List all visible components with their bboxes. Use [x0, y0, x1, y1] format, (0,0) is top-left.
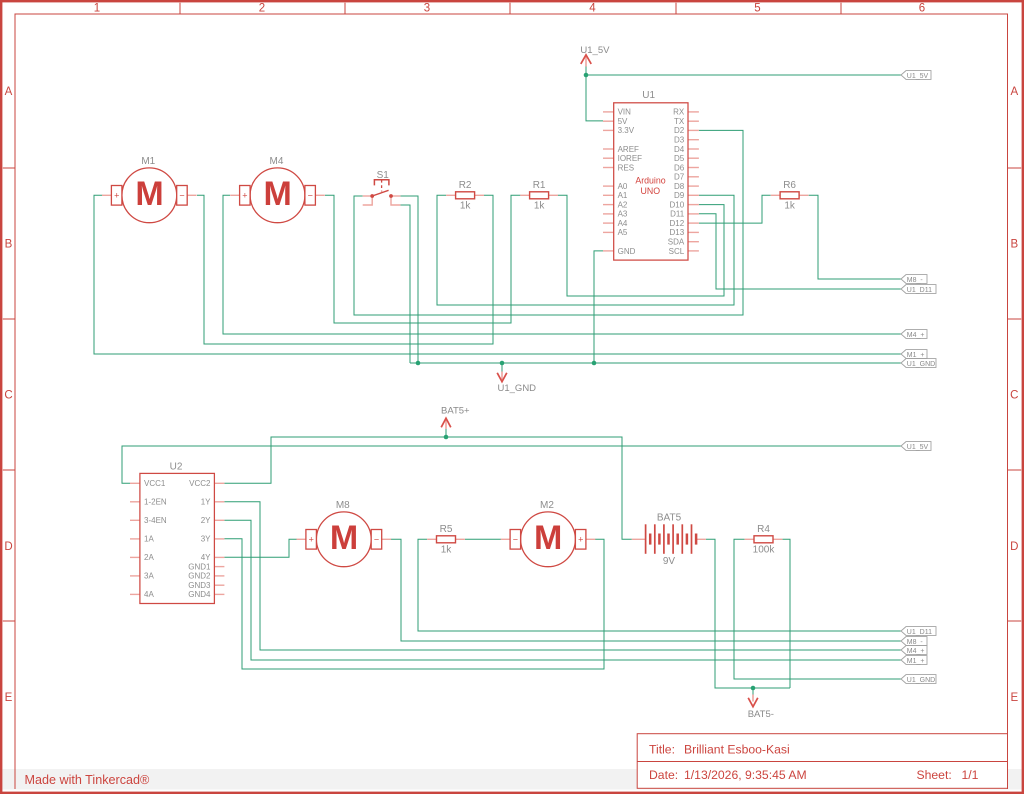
net flag U1_GND (top)	[901, 359, 936, 368]
net flag U1_5V (top)	[901, 71, 931, 80]
junction S1 right on U1_GND net	[416, 361, 421, 366]
wire net U1_5V lower from U2 VCC1 to flag	[122, 446, 901, 483]
svg-text:1/1: 1/1	[962, 768, 979, 782]
svg-text:4Y: 4Y	[201, 553, 211, 562]
wire R2 left to U1 pin D9	[437, 195, 734, 305]
wire net M8_- from R6 right to flag	[809, 195, 901, 279]
svg-text:M1_+: M1_+	[907, 352, 925, 359]
wire S1 left to U1 pin D2	[354, 130, 743, 315]
svg-text:GND2: GND2	[188, 572, 211, 581]
svg-text:Arduino: Arduino	[635, 176, 665, 186]
resistor R4	[745, 524, 783, 555]
svg-text:9V: 9V	[663, 556, 676, 567]
svg-text:U2: U2	[170, 461, 183, 472]
svg-text:VCC1: VCC1	[144, 479, 166, 488]
svg-text:D12: D12	[670, 219, 685, 228]
wire net U1_D11 lower from R5 left to flag	[418, 539, 901, 631]
svg-text:M: M	[264, 175, 292, 213]
svg-text:C: C	[4, 390, 12, 402]
svg-text:TX: TX	[674, 117, 685, 126]
junction U1 GND pin on U1_GND net	[592, 361, 597, 366]
svg-text:E: E	[1010, 692, 1018, 704]
driver IC U2	[130, 461, 224, 603]
wire net M4_+ (M4 plus terminal down and right to flag)	[223, 195, 901, 334]
motor M1	[102, 156, 197, 223]
svg-text:+: +	[114, 191, 119, 201]
svg-text:D10: D10	[670, 200, 685, 209]
svg-text:BAT5+: BAT5+	[441, 405, 470, 416]
svg-text:U1_GND: U1_GND	[907, 677, 935, 684]
svg-text:+: +	[242, 191, 247, 201]
svg-text:D7: D7	[674, 173, 685, 182]
svg-text:1-2EN: 1-2EN	[144, 498, 167, 507]
wire S1 upper right to U1_GND net	[400, 196, 418, 363]
svg-text:5: 5	[754, 3, 760, 15]
svg-text:100k: 100k	[753, 545, 776, 556]
wire net M4_+ lower from U2 1Y to flag	[224, 502, 901, 650]
svg-text:A4: A4	[618, 219, 628, 228]
net flag U1_GND (lower)	[901, 675, 936, 684]
svg-text:+: +	[309, 535, 314, 545]
svg-text:M4_+: M4_+	[907, 648, 925, 655]
net flag M1_+ (lower)	[901, 656, 927, 665]
net flag U1_5V (lower)	[901, 442, 931, 451]
svg-text:−: −	[308, 191, 313, 201]
wire R4 right down to BAT5- node	[783, 539, 791, 688]
svg-text:Made with Tinkercad®: Made with Tinkercad®	[25, 773, 150, 787]
svg-text:VCC2: VCC2	[189, 479, 211, 488]
junction U1_5V node	[584, 73, 589, 78]
svg-text:1/13/2026, 9:35:45 AM: 1/13/2026, 9:35:45 AM	[684, 768, 807, 782]
ground symbol U1_GND	[497, 372, 536, 394]
svg-text:M: M	[330, 519, 358, 557]
wire R5 right to M2 minus	[465, 538, 501, 540]
svg-text:1k: 1k	[460, 201, 472, 212]
wire U2 4Y to M8 plus	[224, 539, 296, 557]
svg-text:A: A	[5, 86, 13, 98]
svg-text:D9: D9	[674, 191, 685, 200]
wire net M1_+ lower from U2 2Y to flag	[224, 520, 901, 660]
wire net U1_5V to flag	[586, 74, 901, 76]
svg-text:1A: 1A	[144, 535, 154, 544]
svg-text:A0: A0	[618, 182, 628, 191]
svg-text:AREF: AREF	[618, 145, 639, 154]
svg-text:1k: 1k	[784, 201, 796, 212]
svg-text:Date:: Date:	[649, 768, 678, 782]
svg-text:M: M	[135, 175, 163, 213]
svg-text:D: D	[1010, 541, 1018, 553]
wire net M1_+ (M1 plus terminal down and right to flag)	[94, 195, 901, 354]
wire net U1_D11 from pin D11 to flag	[699, 214, 901, 289]
svg-text:D6: D6	[674, 163, 685, 172]
battery BAT5	[632, 513, 706, 568]
svg-text:5V: 5V	[618, 117, 628, 126]
net flag M1_+ (top)	[901, 350, 927, 359]
junction BAT5+ node	[444, 435, 449, 440]
frame row tick marks	[3, 168, 1021, 621]
svg-text:M4: M4	[270, 156, 284, 167]
svg-text:A: A	[1010, 86, 1018, 98]
svg-text:D11: D11	[670, 210, 685, 219]
wire M4 minus to R1 left	[325, 195, 520, 323]
svg-text:M: M	[534, 519, 562, 557]
svg-text:U1_D11: U1_D11	[907, 629, 932, 636]
IC U1 Arduino UNO	[603, 90, 699, 260]
svg-text:U1_D11: U1_D11	[907, 287, 932, 294]
svg-text:3: 3	[424, 3, 430, 15]
svg-text:U1_GND: U1_GND	[498, 383, 537, 394]
svg-text:D4: D4	[674, 145, 685, 154]
pushbutton S1	[363, 170, 401, 205]
svg-text:BAT5: BAT5	[657, 513, 682, 524]
wire net BAT5+ from U2 VCC2 to battery plus	[224, 437, 631, 539]
wire U1 GND pin down to U1_GND net	[594, 251, 603, 363]
svg-text:U1_GND: U1_GND	[907, 361, 935, 368]
svg-text:GND: GND	[618, 247, 636, 256]
motor M4	[230, 156, 325, 223]
svg-text:C: C	[1010, 390, 1018, 402]
svg-text:A1: A1	[618, 191, 628, 200]
svg-text:B: B	[5, 239, 13, 251]
svg-text:VIN: VIN	[618, 108, 632, 117]
svg-text:M1_+: M1_+	[907, 658, 925, 665]
svg-text:2A: 2A	[144, 553, 154, 562]
svg-text:R6: R6	[783, 180, 796, 191]
svg-text:A3: A3	[618, 210, 628, 219]
svg-text:D8: D8	[674, 182, 685, 191]
svg-text:2Y: 2Y	[201, 516, 211, 525]
frame column labels 1-6	[94, 3, 925, 15]
ground symbol BAT5-	[748, 695, 774, 720]
svg-text:D5: D5	[674, 154, 685, 163]
wire net M8_- lower from M8 minus to flag	[391, 539, 901, 641]
svg-text:BAT5-: BAT5-	[748, 709, 774, 720]
svg-text:M8: M8	[336, 500, 350, 511]
svg-text:1: 1	[94, 3, 100, 15]
svg-text:SCL: SCL	[669, 247, 685, 256]
svg-text:1k: 1k	[441, 545, 453, 556]
svg-text:A2: A2	[618, 200, 628, 209]
svg-text:D3: D3	[674, 136, 685, 145]
wire U1 pin D12 to R6 left	[699, 195, 771, 223]
svg-text:SDA: SDA	[668, 238, 685, 247]
junction BAT5- node	[751, 686, 756, 691]
svg-text:D13: D13	[670, 228, 685, 237]
svg-text:U1: U1	[642, 90, 655, 101]
net flag U1_D11 (top)	[901, 285, 936, 294]
svg-text:UNO: UNO	[641, 186, 661, 196]
svg-text:E: E	[5, 692, 13, 704]
net flag M8_- (top)	[901, 275, 927, 284]
svg-text:GND4: GND4	[188, 590, 211, 599]
resistor R5	[427, 524, 465, 555]
wire stub from BAT5+ arrow to node	[445, 429, 447, 438]
svg-text:U1_5V: U1_5V	[580, 45, 610, 56]
resistor R2	[446, 180, 484, 211]
bottom margin gray band	[3, 769, 1022, 790]
svg-text:Title:: Title:	[649, 742, 675, 756]
power symbol BAT5+	[441, 405, 470, 429]
motor M8	[297, 500, 392, 567]
svg-text:R4: R4	[757, 524, 770, 535]
svg-text:+: +	[578, 535, 583, 545]
resistor R6	[771, 180, 809, 211]
svg-text:M8_-: M8_-	[907, 277, 924, 284]
wire S1 lower right to U1_GND net	[400, 205, 410, 363]
svg-text:R1: R1	[533, 180, 546, 191]
svg-text:−: −	[374, 535, 379, 545]
svg-text:4: 4	[589, 3, 596, 15]
svg-text:3A: 3A	[144, 572, 154, 581]
svg-text:M4_+: M4_+	[907, 332, 925, 339]
svg-text:2: 2	[259, 3, 265, 15]
svg-text:1k: 1k	[534, 201, 546, 212]
net flag M4_+ (top)	[901, 330, 927, 339]
svg-text:R2: R2	[459, 180, 472, 191]
svg-text:M8_-: M8_-	[907, 639, 924, 646]
power symbol U1_5V (top)	[580, 45, 610, 67]
net flag U1_D11 (lower)	[901, 627, 936, 636]
wire M1 minus to R2 right	[197, 195, 493, 344]
svg-text:3.3V: 3.3V	[618, 126, 635, 135]
svg-text:GND1: GND1	[188, 562, 211, 571]
wire U2 3Y to M2 plus	[224, 539, 604, 669]
svg-text:U1_5V: U1_5V	[907, 444, 929, 451]
wire U1_5V node to U1 5V pin	[586, 66, 603, 121]
wire stub to U1_GND ground arrow	[501, 363, 503, 372]
svg-text:A5: A5	[618, 228, 628, 237]
net flag M8_- (lower)	[901, 637, 927, 646]
svg-text:3-4EN: 3-4EN	[144, 516, 167, 525]
wire net U1_GND horizontal bus to flag	[410, 362, 901, 364]
svg-text:GND3: GND3	[188, 581, 211, 590]
resistor R1	[520, 180, 558, 211]
svg-text:Brilliant Esboo-Kasi: Brilliant Esboo-Kasi	[684, 742, 790, 756]
svg-text:4A: 4A	[144, 590, 154, 599]
svg-text:Sheet:: Sheet:	[917, 768, 952, 782]
frame row labels A-E	[4, 86, 1018, 704]
wire stub to BAT5- arrow	[752, 688, 754, 695]
svg-text:6: 6	[919, 3, 925, 15]
wire net U1_GND lower from R4 left to flag	[734, 539, 901, 679]
svg-text:3Y: 3Y	[201, 535, 211, 544]
wire battery minus to BAT5- node	[706, 539, 790, 688]
svg-text:U1_5V: U1_5V	[907, 73, 929, 80]
svg-text:D2: D2	[674, 126, 685, 135]
svg-text:1Y: 1Y	[201, 498, 211, 507]
svg-text:M1: M1	[141, 156, 155, 167]
frame column tick marks	[180, 3, 841, 14]
svg-text:D: D	[4, 541, 12, 553]
motor M2	[501, 500, 596, 567]
svg-text:R5: R5	[440, 524, 453, 535]
svg-text:RES: RES	[618, 163, 634, 172]
svg-text:−: −	[513, 535, 518, 545]
svg-text:M2: M2	[540, 500, 554, 511]
svg-text:IOREF: IOREF	[618, 154, 643, 163]
net flag M4_+ (lower)	[901, 646, 927, 655]
wire R1 right to U1 pin D10	[558, 195, 724, 296]
svg-text:B: B	[1010, 239, 1018, 251]
svg-text:RX: RX	[673, 108, 685, 117]
svg-text:−: −	[179, 191, 184, 201]
title block	[637, 734, 1007, 789]
junction ground arrow on U1_GND net	[500, 361, 505, 366]
